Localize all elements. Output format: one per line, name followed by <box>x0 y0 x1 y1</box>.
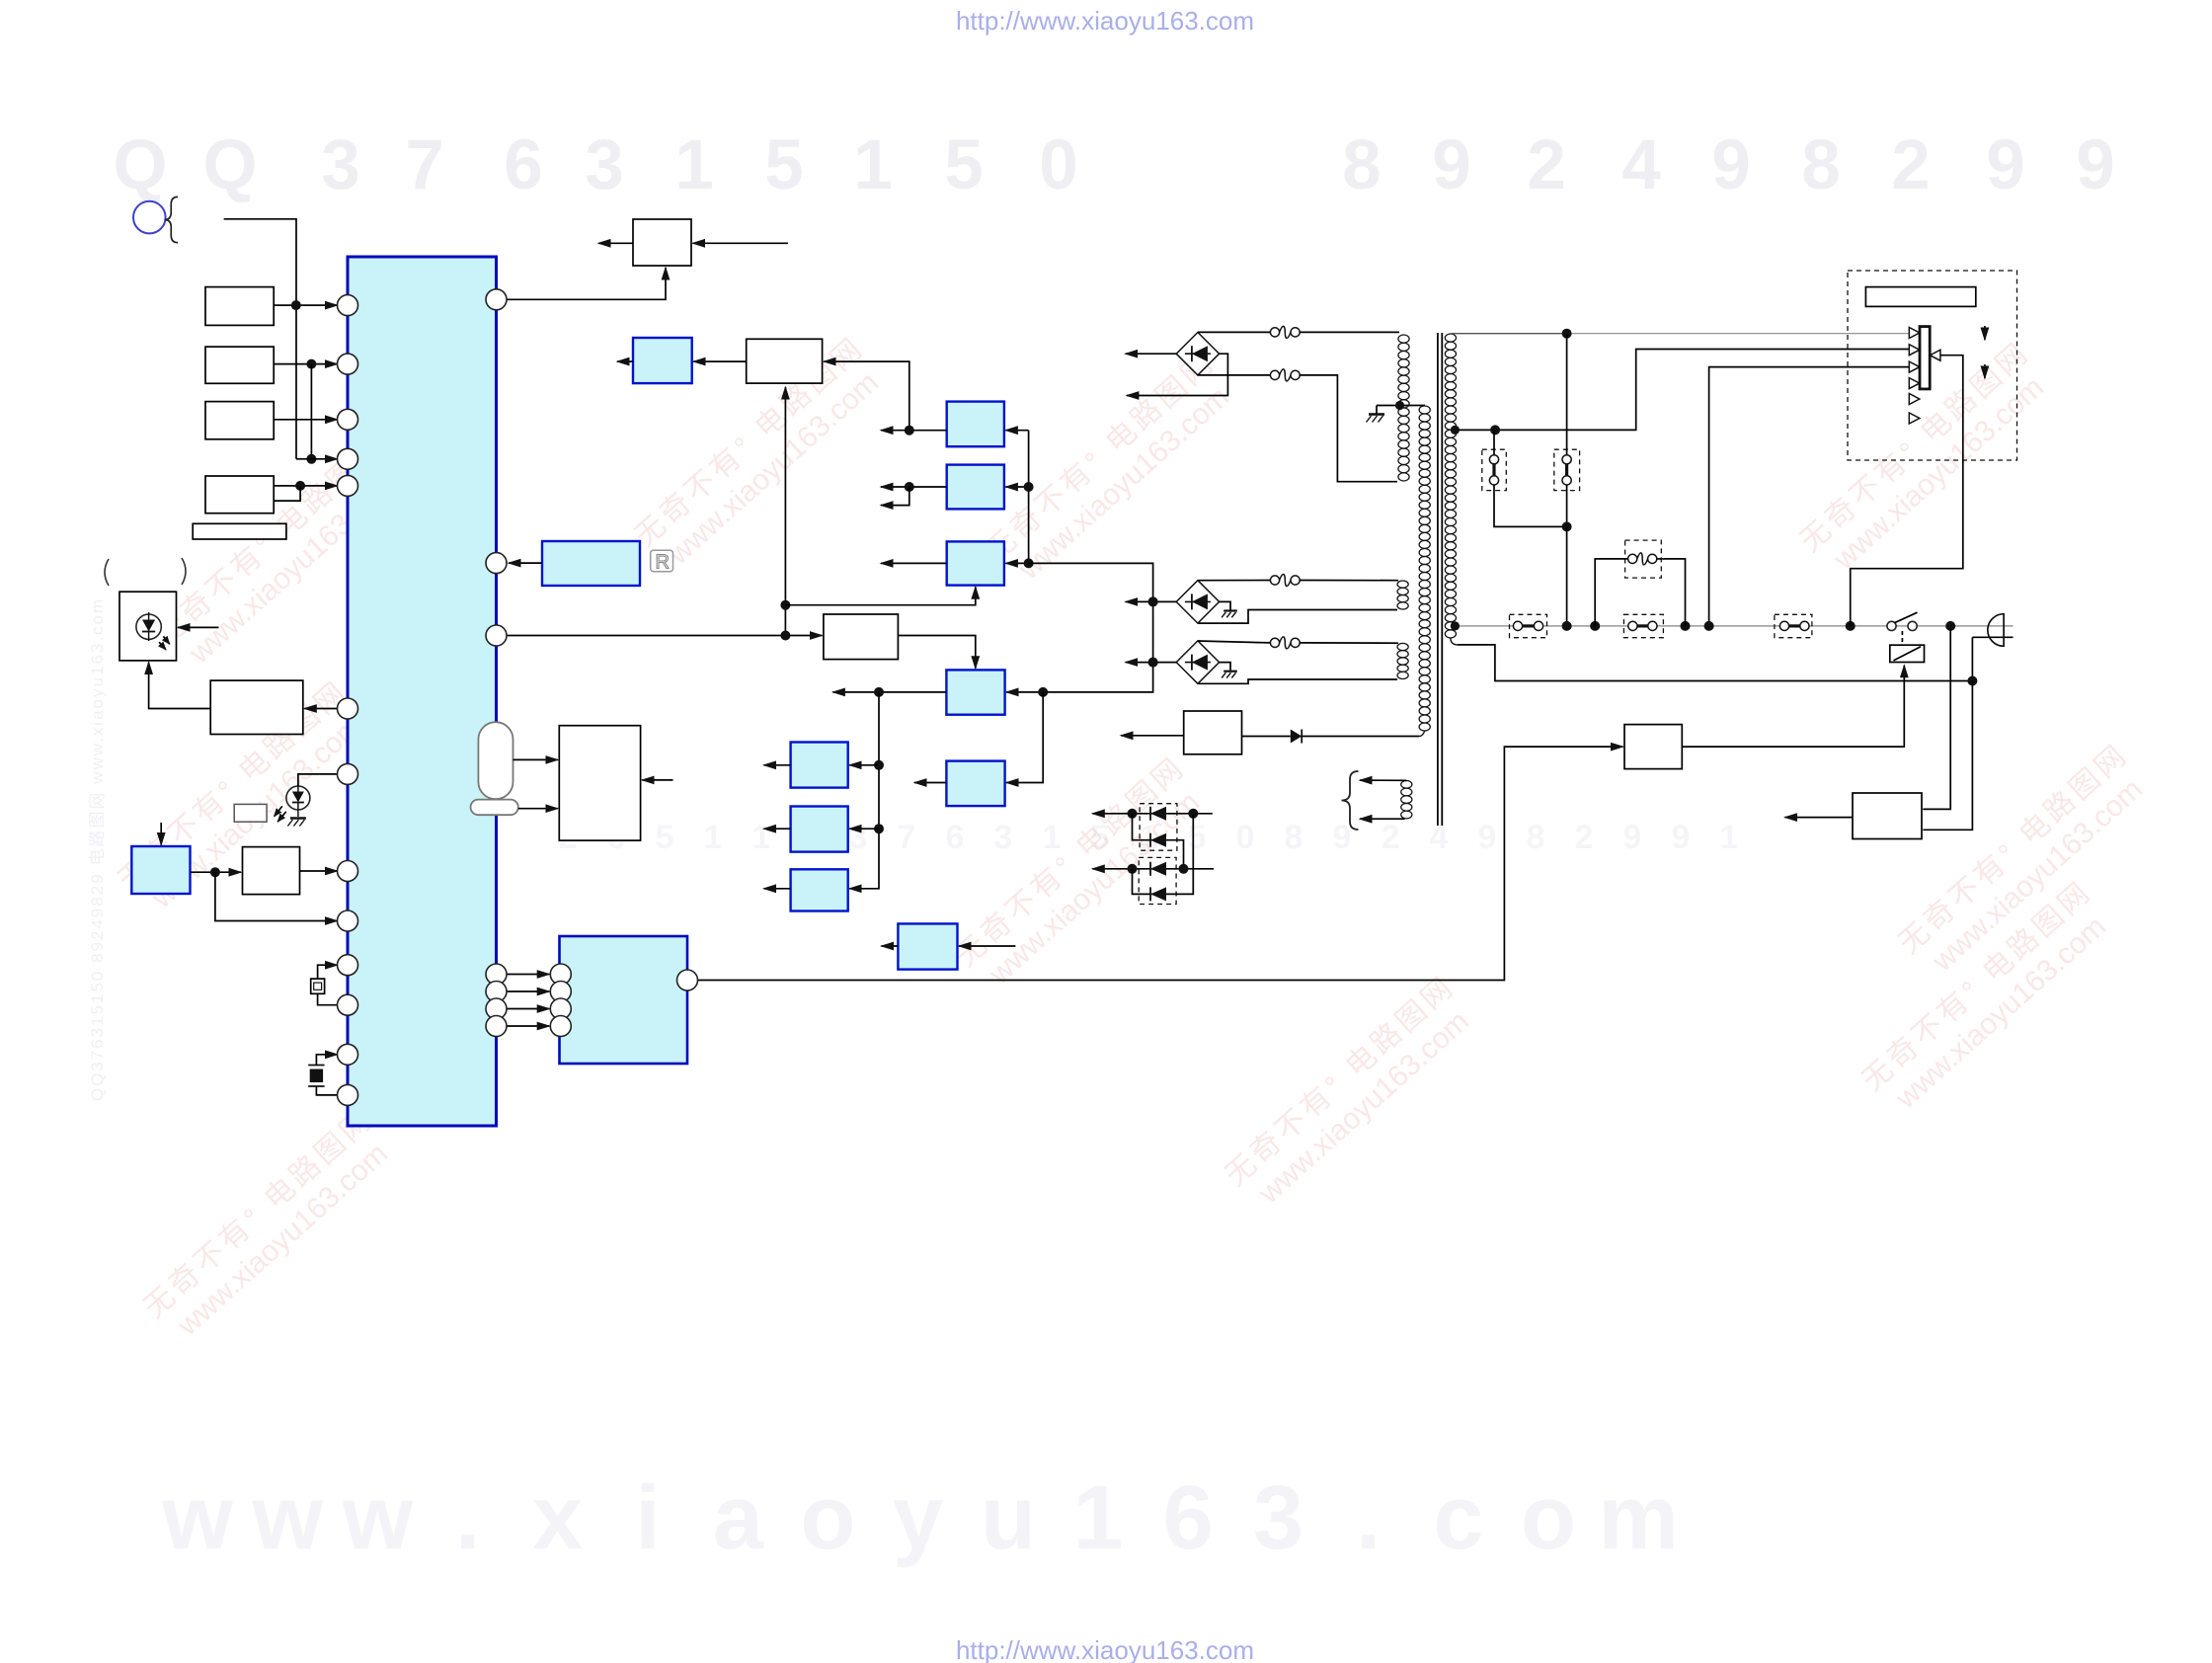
block reg4 (cyan) <box>946 670 1004 714</box>
ground primary tap <box>1369 413 1384 416</box>
svg-text:x: x <box>532 1467 583 1568</box>
wire audio rail vertical <box>849 692 879 889</box>
wire F2 to coil <box>1300 375 1397 482</box>
block osc <box>559 726 640 840</box>
junction <box>291 300 301 310</box>
svg-text:c: c <box>1433 1467 1483 1568</box>
block fl drive (cyan) <box>633 338 692 383</box>
pin IC1 left <box>338 1084 358 1105</box>
svg-text:1: 1 <box>704 819 723 856</box>
wire reg2 aux out <box>881 487 909 506</box>
switch S1 <box>1887 621 1896 630</box>
block reg5 (cyan) <box>946 761 1004 807</box>
watermark pink stamp <box>1220 970 1485 1219</box>
wire fuse bypass <box>1595 559 1627 626</box>
wire D2 ac2 <box>1199 610 1398 624</box>
junction <box>1562 521 1572 531</box>
block reg 5V (cyan) <box>947 465 1004 510</box>
junction <box>1846 621 1856 631</box>
watermark left margin text <box>88 597 107 1101</box>
wire IR amp to IR box <box>149 663 211 709</box>
junction <box>306 359 316 369</box>
wire relay drive <box>1682 666 1904 747</box>
pin IC2 left <box>550 1016 571 1037</box>
svg-text:2: 2 <box>1891 126 1931 204</box>
wire data 3 IC1 to IC2 <box>507 1008 550 1010</box>
block reset <box>243 847 300 895</box>
pin IC1 left <box>338 295 358 316</box>
pin IC1 left <box>338 409 358 430</box>
link J0 box <box>1510 614 1547 637</box>
block buffer <box>747 339 823 383</box>
wire up into buffer <box>784 387 786 636</box>
svg-text:4: 4 <box>1430 819 1449 856</box>
wire diode to winding <box>1302 736 1419 738</box>
pin IC2 left <box>550 998 571 1019</box>
connector pin 1 <box>1909 328 1920 339</box>
block audio B (cyan) <box>791 807 848 852</box>
connector pin return <box>1930 350 1940 360</box>
svg-text:a: a <box>713 1467 764 1568</box>
wire primary tap <box>1377 405 1425 407</box>
junction <box>1024 558 1034 568</box>
block reg 9V (cyan) <box>947 402 1004 447</box>
wire standby to pin <box>215 872 338 920</box>
wire D3 gnd <box>1220 663 1230 671</box>
svg-text:6: 6 <box>946 819 965 856</box>
link FL2 box <box>1554 449 1580 490</box>
junction <box>1490 425 1500 435</box>
block regulator IC3 <box>1184 711 1242 754</box>
block relay driver <box>1624 725 1682 769</box>
wire D1 out1 <box>1126 353 1177 355</box>
svg-text:1: 1 <box>853 126 893 204</box>
watermark pink stamp <box>629 331 895 580</box>
block power sense <box>1853 793 1922 839</box>
pin IC1 right <box>486 982 507 1002</box>
block key input 2 <box>205 347 274 383</box>
crystal X2 (ceramic) <box>308 1065 324 1067</box>
pin IC1 right <box>486 998 507 1019</box>
wire DC rail to reg4 <box>1006 563 1153 692</box>
svg-text:7: 7 <box>405 126 444 204</box>
transformer core <box>1437 333 1439 826</box>
watermark pink stamp <box>113 674 378 923</box>
svg-text:9: 9 <box>1478 819 1497 856</box>
svg-text:0: 0 <box>1236 819 1255 856</box>
wire reg5 in <box>1006 692 1043 783</box>
diode D6 <box>1150 833 1166 847</box>
resonator pill horizontal <box>471 800 518 816</box>
connector pin 5 <box>1909 394 1920 405</box>
diode D4 <box>1291 730 1302 744</box>
wire reg feed vertical <box>1028 431 1030 564</box>
resonator pill vertical <box>478 722 513 799</box>
junction <box>1704 621 1714 631</box>
junction <box>874 824 884 833</box>
wire remote to IC pin <box>509 562 542 564</box>
wire fuse bypass right <box>1657 559 1686 626</box>
wire standby top arrow <box>1360 779 1406 781</box>
wire stub into standby <box>160 823 162 845</box>
wire key bus vertical B <box>310 364 312 459</box>
wire C out <box>764 888 791 890</box>
wire reg1 out <box>881 430 947 432</box>
block key input 3 <box>205 402 274 439</box>
link J1 <box>1628 621 1637 630</box>
junction <box>780 631 790 641</box>
wire standby bottom arrow <box>1360 818 1405 820</box>
svg-text:8: 8 <box>1342 126 1382 204</box>
junction <box>1148 658 1158 668</box>
pin IC1 left <box>338 911 358 931</box>
winding aux D <box>1397 643 1408 650</box>
svg-text:6: 6 <box>504 126 543 204</box>
wire to FL1 <box>1493 430 1495 454</box>
wire F3 to coil <box>1300 580 1398 582</box>
link J1 box <box>1623 614 1663 637</box>
svg-text:http://www.xiaoyu163.com: http://www.xiaoyu163.com <box>956 6 1254 36</box>
junction <box>1590 621 1600 631</box>
block key input 4 <box>205 476 274 514</box>
wire key bus vertical A <box>224 219 296 459</box>
svg-text:8: 8 <box>1801 126 1841 204</box>
svg-text:9: 9 <box>2076 126 2115 204</box>
wire IC2 out long <box>697 747 1623 980</box>
wire FL to rail <box>1566 526 1568 626</box>
wire D3 ac1 <box>1198 641 1271 643</box>
wire AC rail <box>1455 625 2013 627</box>
wire key4 to pin <box>274 485 337 487</box>
ground D2 <box>1224 609 1237 611</box>
svg-text:u: u <box>981 1467 1036 1568</box>
svg-text:QQ376315150 89249829 电路图网 www.: QQ376315150 89249829 电路图网 www.xiaoyu163.… <box>88 597 107 1101</box>
svg-text:3: 3 <box>849 819 868 856</box>
block standby in (cyan) <box>131 846 190 894</box>
wire chain row1 <box>1092 813 1193 815</box>
wire D2 ac1 <box>1198 580 1271 582</box>
junction <box>1451 621 1460 630</box>
arrow down 2 <box>1984 364 1986 378</box>
link FL1 box <box>1482 449 1507 490</box>
diode D8 <box>1150 887 1166 901</box>
wire pill1 to osc <box>513 758 558 760</box>
wire pill2 to osc <box>518 808 558 810</box>
pin IC1 right <box>486 625 507 646</box>
diode D7 <box>1150 862 1166 876</box>
connector label rect <box>1865 287 1975 307</box>
brace standby <box>1342 771 1359 830</box>
wire data 2 IC1 to IC2 <box>507 990 550 992</box>
junction <box>905 482 914 492</box>
pin IC1 left <box>338 861 358 882</box>
watermark digits row top <box>113 126 2114 204</box>
remote emitter box <box>234 804 267 822</box>
wire D2 gnd <box>1220 601 1230 609</box>
junction <box>1562 329 1572 339</box>
wire chain row1 stub <box>1193 813 1213 815</box>
junction <box>1128 809 1138 819</box>
wire regD in stub <box>959 945 1015 947</box>
junction <box>1395 401 1404 410</box>
diode chain box 1 <box>1140 804 1177 851</box>
wire D3 ac2 <box>1199 679 1398 683</box>
wire reg5 out <box>914 782 946 784</box>
connector CN1 body <box>1920 327 1930 389</box>
svg-text:5: 5 <box>944 126 984 204</box>
pin IC1 left <box>338 1044 358 1065</box>
wire tap mid <box>1454 350 1909 431</box>
svg-text:2: 2 <box>1527 126 1566 204</box>
wire secondary top rail thin <box>1567 333 1909 335</box>
pin IC1 left <box>338 994 358 1015</box>
svg-text:2: 2 <box>1382 819 1400 856</box>
wire data 4 IC1 to IC2 <box>507 1025 550 1027</box>
pin IC1 right <box>486 1016 507 1037</box>
wire reg4 out <box>832 691 946 693</box>
wire B out <box>764 828 791 830</box>
wire PS out <box>1785 817 1854 819</box>
wire node to reg3 bottom <box>785 587 975 604</box>
connector pin 6 <box>1909 413 1920 424</box>
wire pin to IR amp <box>304 708 337 710</box>
winding standby <box>1401 780 1412 788</box>
rectifier bridge D1 <box>1176 333 1219 375</box>
wire chain link1 <box>1133 814 1176 840</box>
svg-text:9: 9 <box>1432 126 1471 204</box>
wire to PS box pin2 <box>1923 681 1972 831</box>
svg-text:3: 3 <box>1253 1467 1303 1568</box>
block audio C (cyan) <box>791 869 848 911</box>
block audio A (cyan) <box>791 743 848 788</box>
watermark pink stamp <box>980 346 1245 594</box>
relay RY1 <box>1890 645 1925 662</box>
pin IC1 left <box>338 698 358 719</box>
wire key3 to pin <box>274 419 337 421</box>
junction <box>1148 658 1158 668</box>
wire buffer to cyan <box>693 360 747 362</box>
antenna circle <box>133 201 166 234</box>
wire chain row2 stub <box>1184 868 1215 870</box>
wire stub into osc right <box>642 779 672 781</box>
junction <box>780 600 790 610</box>
watermark digits row middle <box>559 819 1739 856</box>
diode D5 <box>1150 807 1166 821</box>
wire chain row2 <box>1092 868 1183 870</box>
winding primary upper <box>1398 335 1409 343</box>
winding main left <box>1419 406 1430 414</box>
svg-text:6: 6 <box>1163 1467 1214 1568</box>
wire out stub <box>617 360 633 362</box>
svg-text:0: 0 <box>1039 126 1078 204</box>
watermark pink stamp <box>1794 336 2060 585</box>
junction <box>210 867 220 877</box>
wire amp to reg4 top <box>898 636 975 669</box>
wire timer in stub <box>693 242 789 244</box>
winding secondary <box>1445 334 1456 342</box>
block regD (cyan) <box>898 923 957 969</box>
parenthesis right <box>182 558 186 585</box>
svg-text:1: 1 <box>1072 1467 1123 1568</box>
logo R mark <box>651 550 673 572</box>
block amp <box>824 614 899 660</box>
IR receiver box <box>119 592 177 661</box>
wire chain link2 <box>1176 840 1184 869</box>
wire D1 ac2 <box>1198 374 1271 376</box>
pin IC1 right <box>486 964 507 985</box>
fuse F5 box <box>1625 540 1662 578</box>
ground LED <box>290 817 306 820</box>
block remote decoder (cyan) <box>542 541 640 586</box>
svg-text:1: 1 <box>1720 819 1739 856</box>
svg-text:8: 8 <box>1285 819 1303 856</box>
wire IC3 out <box>1121 735 1184 737</box>
link J2 <box>1779 621 1788 630</box>
fuse F2 <box>1270 370 1279 379</box>
svg-text:9: 9 <box>1333 819 1352 856</box>
wire to PS box pin1 <box>1923 626 1950 810</box>
svg-text:1: 1 <box>674 126 714 204</box>
svg-text:i: i <box>635 1467 661 1568</box>
wire regD out <box>882 945 899 947</box>
block timer (top) <box>633 219 691 266</box>
wire key4 return <box>274 486 300 501</box>
svg-text:9: 9 <box>1672 819 1691 856</box>
svg-text:Q: Q <box>202 126 257 204</box>
svg-text:5: 5 <box>656 819 674 856</box>
wire connector return <box>1851 356 1963 626</box>
junction <box>1562 621 1572 631</box>
junction <box>1451 426 1460 435</box>
junction <box>1038 687 1048 697</box>
connector pin 4 <box>1909 378 1920 389</box>
LED standby <box>286 786 310 810</box>
svg-text:m: m <box>1598 1467 1679 1568</box>
svg-text:7: 7 <box>898 819 916 856</box>
block key input 1 <box>205 287 274 326</box>
junction <box>1128 864 1138 874</box>
junction <box>1024 482 1034 492</box>
wire chain link4 <box>1176 814 1194 895</box>
pin IC2 left <box>550 964 571 985</box>
svg-text:5: 5 <box>1188 819 1207 856</box>
pin IC1 left <box>338 354 358 374</box>
fuse F4 <box>1270 638 1279 647</box>
wire D1 ac1 <box>1198 331 1271 333</box>
junction <box>1148 596 1158 606</box>
IR rays <box>163 636 169 644</box>
connector pin 3 <box>1909 361 1920 372</box>
parenthesis left <box>105 559 109 586</box>
svg-text:w: w <box>161 1467 233 1568</box>
wire secondary bottom <box>1451 638 1458 645</box>
wire reg2 out <box>881 486 947 488</box>
AC plug <box>1988 614 2004 647</box>
brace left top <box>165 197 179 242</box>
link J2 box <box>1775 614 1812 637</box>
watermark pink stamp <box>950 751 1216 999</box>
link FL2 <box>1562 455 1571 464</box>
pin IC1 left <box>338 475 358 496</box>
svg-text:.: . <box>1356 1467 1382 1568</box>
svg-text:1: 1 <box>752 819 771 856</box>
LED rays <box>275 806 282 816</box>
wire connector line3 <box>1709 367 1909 626</box>
wire FL2 down <box>1566 485 1568 526</box>
junction <box>1967 676 1977 686</box>
watermark pink stamp <box>1893 738 2159 987</box>
svg-text:w: w <box>342 1467 414 1568</box>
wire F1 to coil <box>1300 331 1399 333</box>
wire stub into IR box <box>178 626 219 628</box>
wire D2 out <box>1126 600 1177 602</box>
junction <box>1188 809 1198 819</box>
rectifier bridge D3 <box>1176 641 1219 683</box>
wire secondary top rail <box>1451 333 1567 335</box>
svg-text:o: o <box>800 1467 855 1568</box>
wire key1 to pin <box>274 304 337 306</box>
wire node to buffer <box>824 361 909 431</box>
wire data 1 IC1 to IC2 <box>507 974 550 976</box>
junction <box>1148 596 1158 606</box>
watermark pink stamp <box>1856 875 2122 1124</box>
svg-text:o: o <box>1521 1467 1576 1568</box>
arrow down 1 <box>1984 326 1986 340</box>
IC IC2 (display block) <box>560 936 688 1064</box>
diode chain box 2 <box>1139 857 1176 904</box>
svg-text:8: 8 <box>1527 819 1545 856</box>
wire timer out <box>598 242 633 244</box>
svg-text:9: 9 <box>1986 126 2025 204</box>
svg-text:3: 3 <box>321 126 360 204</box>
pin IC2 left <box>550 982 571 1002</box>
relay link dashed <box>1901 631 1903 645</box>
pin IC1 left <box>338 763 358 784</box>
link FL1 <box>1489 455 1498 464</box>
pin IC1 right <box>486 289 507 310</box>
IC IC1 (system control micro, main block) <box>348 257 497 1126</box>
watermark bottom big text <box>161 1467 1679 1568</box>
junction <box>306 454 316 464</box>
wire A out <box>764 764 791 766</box>
svg-text:Q: Q <box>113 126 167 204</box>
wire reg1 in <box>1005 430 1028 432</box>
wire F4 to coil <box>1300 642 1398 644</box>
pin IC1 left <box>338 448 358 469</box>
junction <box>874 687 884 697</box>
wire FL1 down <box>1494 485 1567 526</box>
wire to FL2 <box>1566 334 1568 455</box>
junction <box>1945 621 1955 631</box>
fuse F1 <box>1270 328 1279 337</box>
svg-text:5: 5 <box>764 126 804 204</box>
block IR amp <box>210 680 303 734</box>
junction <box>1179 864 1189 874</box>
wire tap drop <box>1376 406 1378 414</box>
wire A in <box>849 764 879 766</box>
junction <box>1681 621 1691 631</box>
wire reg3 out <box>881 562 947 564</box>
svg-text:y: y <box>893 1467 943 1568</box>
wire chain link3 <box>1133 869 1176 895</box>
wire LED to pin <box>298 774 338 786</box>
wire reg2 in <box>1005 486 1028 488</box>
svg-text:9: 9 <box>1623 819 1642 856</box>
svg-text:3: 3 <box>994 819 1013 856</box>
svg-text:.: . <box>455 1467 481 1568</box>
wire IC3 to diode <box>1242 736 1291 738</box>
wire reset to pin <box>300 870 338 872</box>
